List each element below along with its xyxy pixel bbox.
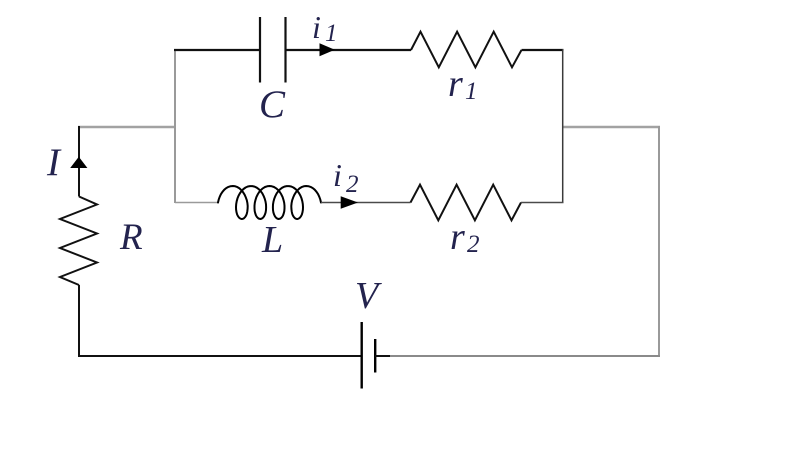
wire bottom left (to battery) (78, 355, 362, 357)
wire top branch (capacitor to r1) (286, 49, 412, 51)
svg-text:C: C (259, 83, 286, 126)
inductor L coil (218, 186, 321, 219)
wire left vertical upper (node to R) (78, 126, 80, 197)
svg-text:2: 2 (467, 231, 480, 258)
battery V long plate (361, 322, 363, 389)
svg-text:R: R (119, 217, 143, 258)
svg-text:2: 2 (346, 171, 359, 198)
wire battery stub right (375, 355, 390, 357)
svg-text:r: r (450, 216, 465, 258)
wire left vertical lower (R to bottom) (78, 285, 80, 357)
wire top branch left (node to capacitor) (174, 49, 260, 51)
wire gray stub to inductor (175, 202, 219, 204)
resistor r2 (411, 185, 522, 221)
svg-text:I: I (46, 141, 62, 184)
wire gray bottom-right horizontal (389, 355, 660, 357)
svg-text:r: r (448, 63, 463, 105)
battery V short plate (374, 339, 376, 373)
capacitor C plates (260, 17, 286, 83)
svg-text:V: V (355, 275, 382, 317)
resistor R (60, 197, 97, 286)
wire middle branch right (r2 to right node) (521, 202, 564, 204)
wire gray outer loop: left horizontal (78, 126, 176, 128)
svg-text:1: 1 (465, 78, 478, 105)
arrow i2 (341, 196, 358, 209)
arrow I (current up) (70, 157, 87, 168)
wire gray top-right horizontal (562, 126, 660, 128)
wire gray outer-right vertical (658, 126, 660, 357)
arrow i1 (320, 43, 335, 56)
wire top branch right (r1 to right node) (522, 49, 564, 51)
resistor r1 (411, 32, 522, 68)
svg-text:L: L (261, 219, 283, 261)
svg-text:1: 1 (325, 20, 338, 47)
wire middle branch (coil to r2) (321, 202, 411, 204)
wire gray inner-left vertical (174, 49, 176, 203)
svg-text:i: i (333, 157, 342, 193)
svg-text:i: i (312, 9, 321, 45)
wire inner-right vertical (562, 49, 564, 203)
